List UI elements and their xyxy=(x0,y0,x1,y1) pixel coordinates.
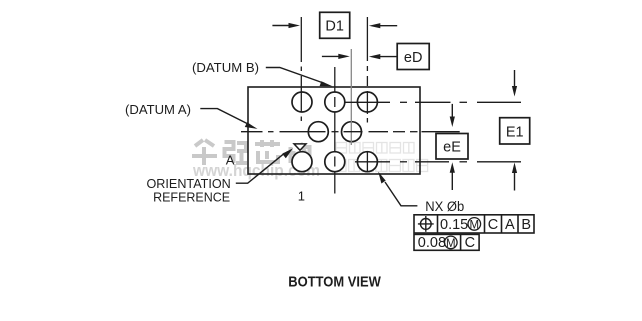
NX Ob leader xyxy=(378,172,417,206)
orientation leader xyxy=(236,148,293,183)
dimension eD left arrow xyxy=(322,54,350,59)
dimension eE down arrow xyxy=(450,104,455,127)
ball pad top row 1 xyxy=(292,92,312,112)
char 4 xyxy=(289,147,293,163)
watermark small characters right xyxy=(335,143,428,172)
gray half-pitch column line xyxy=(350,49,352,145)
dimension eD right arrow xyxy=(369,54,397,59)
svg-text:A: A xyxy=(226,153,235,168)
char 3 xyxy=(260,140,264,147)
datum B leader xyxy=(266,68,333,87)
top row centerline xyxy=(345,101,522,103)
svg-text:BOTTOM VIEW: BOTTOM VIEW xyxy=(288,274,381,291)
svg-text:0.08: 0.08 xyxy=(418,235,446,251)
dimension E1 label box xyxy=(500,118,530,144)
svg-text:(DATUM A): (DATUM A) xyxy=(125,103,191,117)
svg-text:B: B xyxy=(521,217,531,233)
center column line (datum B) xyxy=(334,67,336,194)
dimension D1 right arrow xyxy=(369,23,397,28)
ball pad bottom row 1 (pin 1) xyxy=(292,152,312,172)
dimension E1 up arrow xyxy=(512,163,517,191)
svg-text:NX Øb: NX Øb xyxy=(425,199,464,214)
feature control frame row 2 xyxy=(414,234,479,250)
dimension E1 down arrow xyxy=(512,70,517,97)
position symbol xyxy=(418,216,434,232)
ball pad bottom row 2 xyxy=(325,152,345,172)
dimension eE up arrow xyxy=(450,162,455,190)
svg-text:eD: eD xyxy=(404,50,423,66)
ball pad top row 3 xyxy=(357,92,377,112)
svg-text:(DATUM B): (DATUM B) xyxy=(192,61,259,75)
svg-text:C: C xyxy=(465,235,475,251)
datum A leader xyxy=(200,109,257,129)
char 1 xyxy=(195,140,203,146)
ball pad middle row 2 xyxy=(342,122,362,142)
svg-text:D1: D1 xyxy=(325,19,344,35)
middle row centerline (datum A) xyxy=(241,131,460,133)
feature control frame row 1 xyxy=(414,215,534,233)
extension centerline column 3 xyxy=(366,17,368,123)
dimension eD label box xyxy=(397,44,429,70)
svg-text:REFERENCE: REFERENCE xyxy=(153,190,230,204)
char 2 xyxy=(225,142,234,163)
svg-text:M: M xyxy=(446,238,456,250)
svg-text:E1: E1 xyxy=(506,124,524,140)
orientation triangle xyxy=(294,144,306,150)
extension centerline column 1 xyxy=(300,17,302,121)
ball pad bottom row 3 xyxy=(357,152,377,172)
svg-text:ORIENTATION: ORIENTATION xyxy=(147,177,231,191)
svg-text:eE: eE xyxy=(443,140,461,156)
svg-text:A: A xyxy=(505,217,515,233)
ball pad middle row 1 xyxy=(308,122,328,142)
dimension D1 label box xyxy=(320,12,350,38)
crosshair vertical bottom ball 3 xyxy=(366,151,368,173)
package outline xyxy=(248,87,420,174)
svg-text:0.15: 0.15 xyxy=(440,217,468,233)
svg-text:1: 1 xyxy=(298,188,305,203)
bottom row centerline xyxy=(355,161,521,163)
svg-text:C: C xyxy=(488,217,498,233)
svg-text:M: M xyxy=(470,219,480,231)
watermark big characters xyxy=(192,140,311,165)
ball pad top row 2 (datum B ball) xyxy=(325,92,345,112)
dimension D1 left arrow xyxy=(272,23,300,28)
dimension eE label box xyxy=(436,134,468,160)
